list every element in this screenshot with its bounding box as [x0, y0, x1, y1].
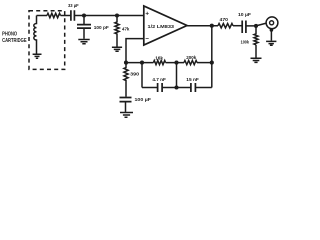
- node cap row left tap: [140, 61, 144, 65]
- resistor 470: [218, 24, 233, 28]
- wire cap row left vertical: [141, 63, 143, 88]
- svg-text:4.7 nF: 4.7 nF: [152, 77, 166, 83]
- svg-text:100 pF: 100 pF: [94, 25, 109, 31]
- ground cartridge: [33, 54, 42, 58]
- node cap row mid: [174, 85, 178, 89]
- wire 470 to 10uF: [233, 25, 242, 27]
- node feedback right: [210, 61, 214, 65]
- svg-text:33 µF: 33 µF: [68, 3, 79, 9]
- ground jack: [266, 41, 276, 45]
- node input junction: [82, 13, 86, 17]
- wire cap row: [142, 87, 212, 89]
- capacitor 15nF: [191, 83, 196, 92]
- svg-text:16k: 16k: [155, 55, 163, 61]
- capacitor 100uF: [120, 98, 132, 102]
- node feedback left: [124, 61, 128, 65]
- resistor cartridge series R: [47, 13, 61, 17]
- wire feedback row: [126, 62, 153, 64]
- capacitor C 100pF: [83, 16, 85, 25]
- resistor 47k: [115, 16, 119, 47]
- svg-text:CARTRIDGE: CARTRIDGE: [2, 38, 27, 44]
- svg-text:−: −: [145, 36, 149, 43]
- node output to feedback: [210, 24, 214, 28]
- resistor 200k: [184, 60, 197, 64]
- ground 100k: [251, 58, 262, 62]
- wire box exit to coupling cap: [61, 15, 71, 17]
- connector output jack J1: [266, 17, 278, 29]
- svg-text:100 µF: 100 µF: [135, 97, 152, 103]
- svg-text:1/2 LM833: 1/2 LM833: [148, 24, 175, 29]
- resistor 390: [124, 63, 128, 97]
- node 100k junction: [254, 24, 258, 28]
- ground 100pF: [78, 40, 89, 44]
- inductor cartridge L: [34, 16, 37, 54]
- svg-text:+: +: [145, 11, 149, 18]
- capacitor 10uF: [242, 21, 246, 34]
- svg-text:PHONO: PHONO: [2, 32, 17, 38]
- svg-text:10 µF: 10 µF: [238, 12, 251, 18]
- op-amp U1 1/2 LM833: [144, 6, 187, 45]
- wire op-amp output: [187, 25, 218, 27]
- svg-text:200k: 200k: [186, 55, 196, 61]
- svg-text:47k: 47k: [122, 27, 130, 33]
- wire cap to op-amp + input: [75, 15, 144, 17]
- svg-text:470: 470: [220, 17, 229, 23]
- wire input rail left segment: [37, 15, 48, 17]
- resistor 100k: [254, 26, 258, 45]
- svg-text:100k: 100k: [241, 40, 250, 46]
- node mid feedback: [174, 61, 178, 65]
- wire inverting input: [126, 39, 144, 63]
- wire right column vertical: [211, 26, 213, 88]
- phono cartridge dashed box: [29, 11, 65, 70]
- capacitor 33uF coupling: [71, 10, 75, 20]
- wire jack shell to ground: [270, 30, 272, 41]
- capacitor 4.7nF: [158, 83, 163, 92]
- node 47k junction: [115, 13, 119, 17]
- ground 100uF: [120, 113, 133, 118]
- svg-text:390: 390: [130, 72, 139, 78]
- svg-text:15 nF: 15 nF: [186, 77, 199, 83]
- resistor 16k: [153, 60, 165, 64]
- wire 10uF to jack: [246, 23, 266, 26]
- wire 16k to 200k: [166, 62, 184, 64]
- wire 200k to right column: [197, 62, 212, 64]
- ground 47k: [112, 47, 122, 51]
- wire mid tap vertical: [176, 63, 178, 88]
